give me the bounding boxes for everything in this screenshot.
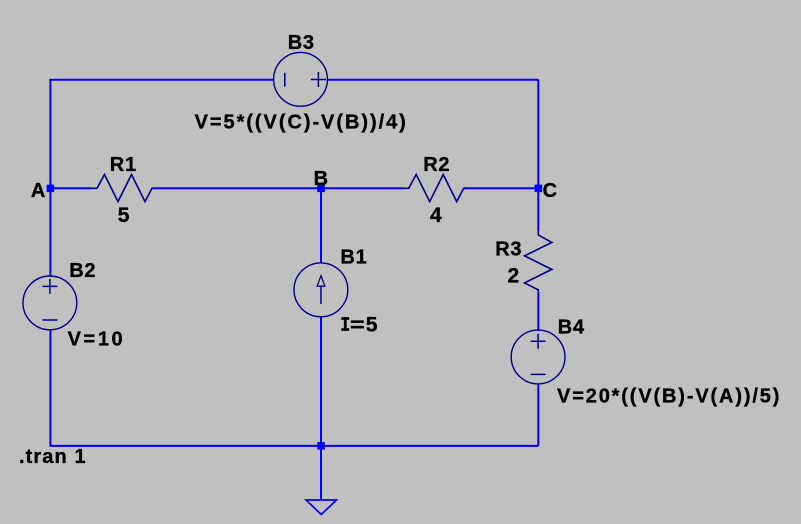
resistor R2 (402, 175, 465, 202)
resistor R3 (525, 228, 552, 291)
wire: middle horizontal rail A-R1-B-R2-C (50, 187, 91, 189)
B1 arrow shaft (320, 286, 322, 304)
node A junction square (47, 185, 55, 193)
B4 minus mark (531, 373, 546, 375)
svg-text:B4: B4 (558, 316, 585, 338)
B3 plus mark (311, 72, 326, 87)
svg-text:2: 2 (508, 264, 520, 287)
svg-text:B: B (314, 168, 328, 190)
wire: between R2 and node C (464, 187, 538, 189)
B4 plus mark (531, 334, 546, 349)
B2 minus mark (42, 319, 57, 321)
ground junction square (317, 442, 325, 450)
svg-text:5: 5 (118, 204, 130, 227)
svg-text:.tran 1: .tran 1 (19, 446, 87, 468)
wire: right vertical rail between R3 and B4 (537, 292, 539, 447)
node C junction square (535, 185, 543, 193)
voltage source B3 circle (274, 52, 328, 106)
svg-text:V=20*((V(B)-V(A))/5): V=20*((V(B)-V(A))/5) (557, 386, 781, 408)
svg-text:4: 4 (430, 204, 442, 227)
svg-text:R2: R2 (423, 154, 450, 176)
svg-text:A: A (31, 180, 45, 202)
B3 minus mark (284, 73, 286, 87)
svg-text:B3: B3 (288, 32, 315, 54)
B1 value label I=5 (341, 314, 377, 337)
voltage source B4 circle (511, 330, 565, 384)
wire: middle vertical rail (B column) (320, 188, 322, 446)
wire: bottom rail (49, 445, 538, 447)
svg-text:C: C (543, 180, 557, 202)
voltage source B2 circle (23, 276, 77, 330)
svg-text:B1: B1 (340, 246, 367, 268)
svg-text:R3: R3 (495, 238, 522, 260)
svg-text:5: 5 (366, 314, 378, 337)
svg-text:B2: B2 (69, 260, 96, 282)
wire: between R1 and node B (153, 187, 403, 189)
B1 arrow head (317, 276, 325, 287)
wire: left vertical rail (A column) (49, 80, 51, 447)
svg-text:V=10: V=10 (68, 329, 126, 351)
wire: right vertical rail above R3 (537, 80, 539, 231)
wire: top rail from node A column to B3 and to node C column (49, 79, 538, 81)
ground (306, 446, 337, 515)
resistor R1 (91, 175, 154, 202)
svg-text:=: = (350, 314, 365, 336)
svg-text:V=5*((V(C)-V(B))/4): V=5*((V(C)-V(B))/4) (195, 112, 408, 134)
B2 plus mark (42, 279, 57, 294)
svg-text:R1: R1 (110, 154, 137, 176)
node B junction square (317, 185, 325, 193)
current source B1 circle (294, 263, 348, 317)
